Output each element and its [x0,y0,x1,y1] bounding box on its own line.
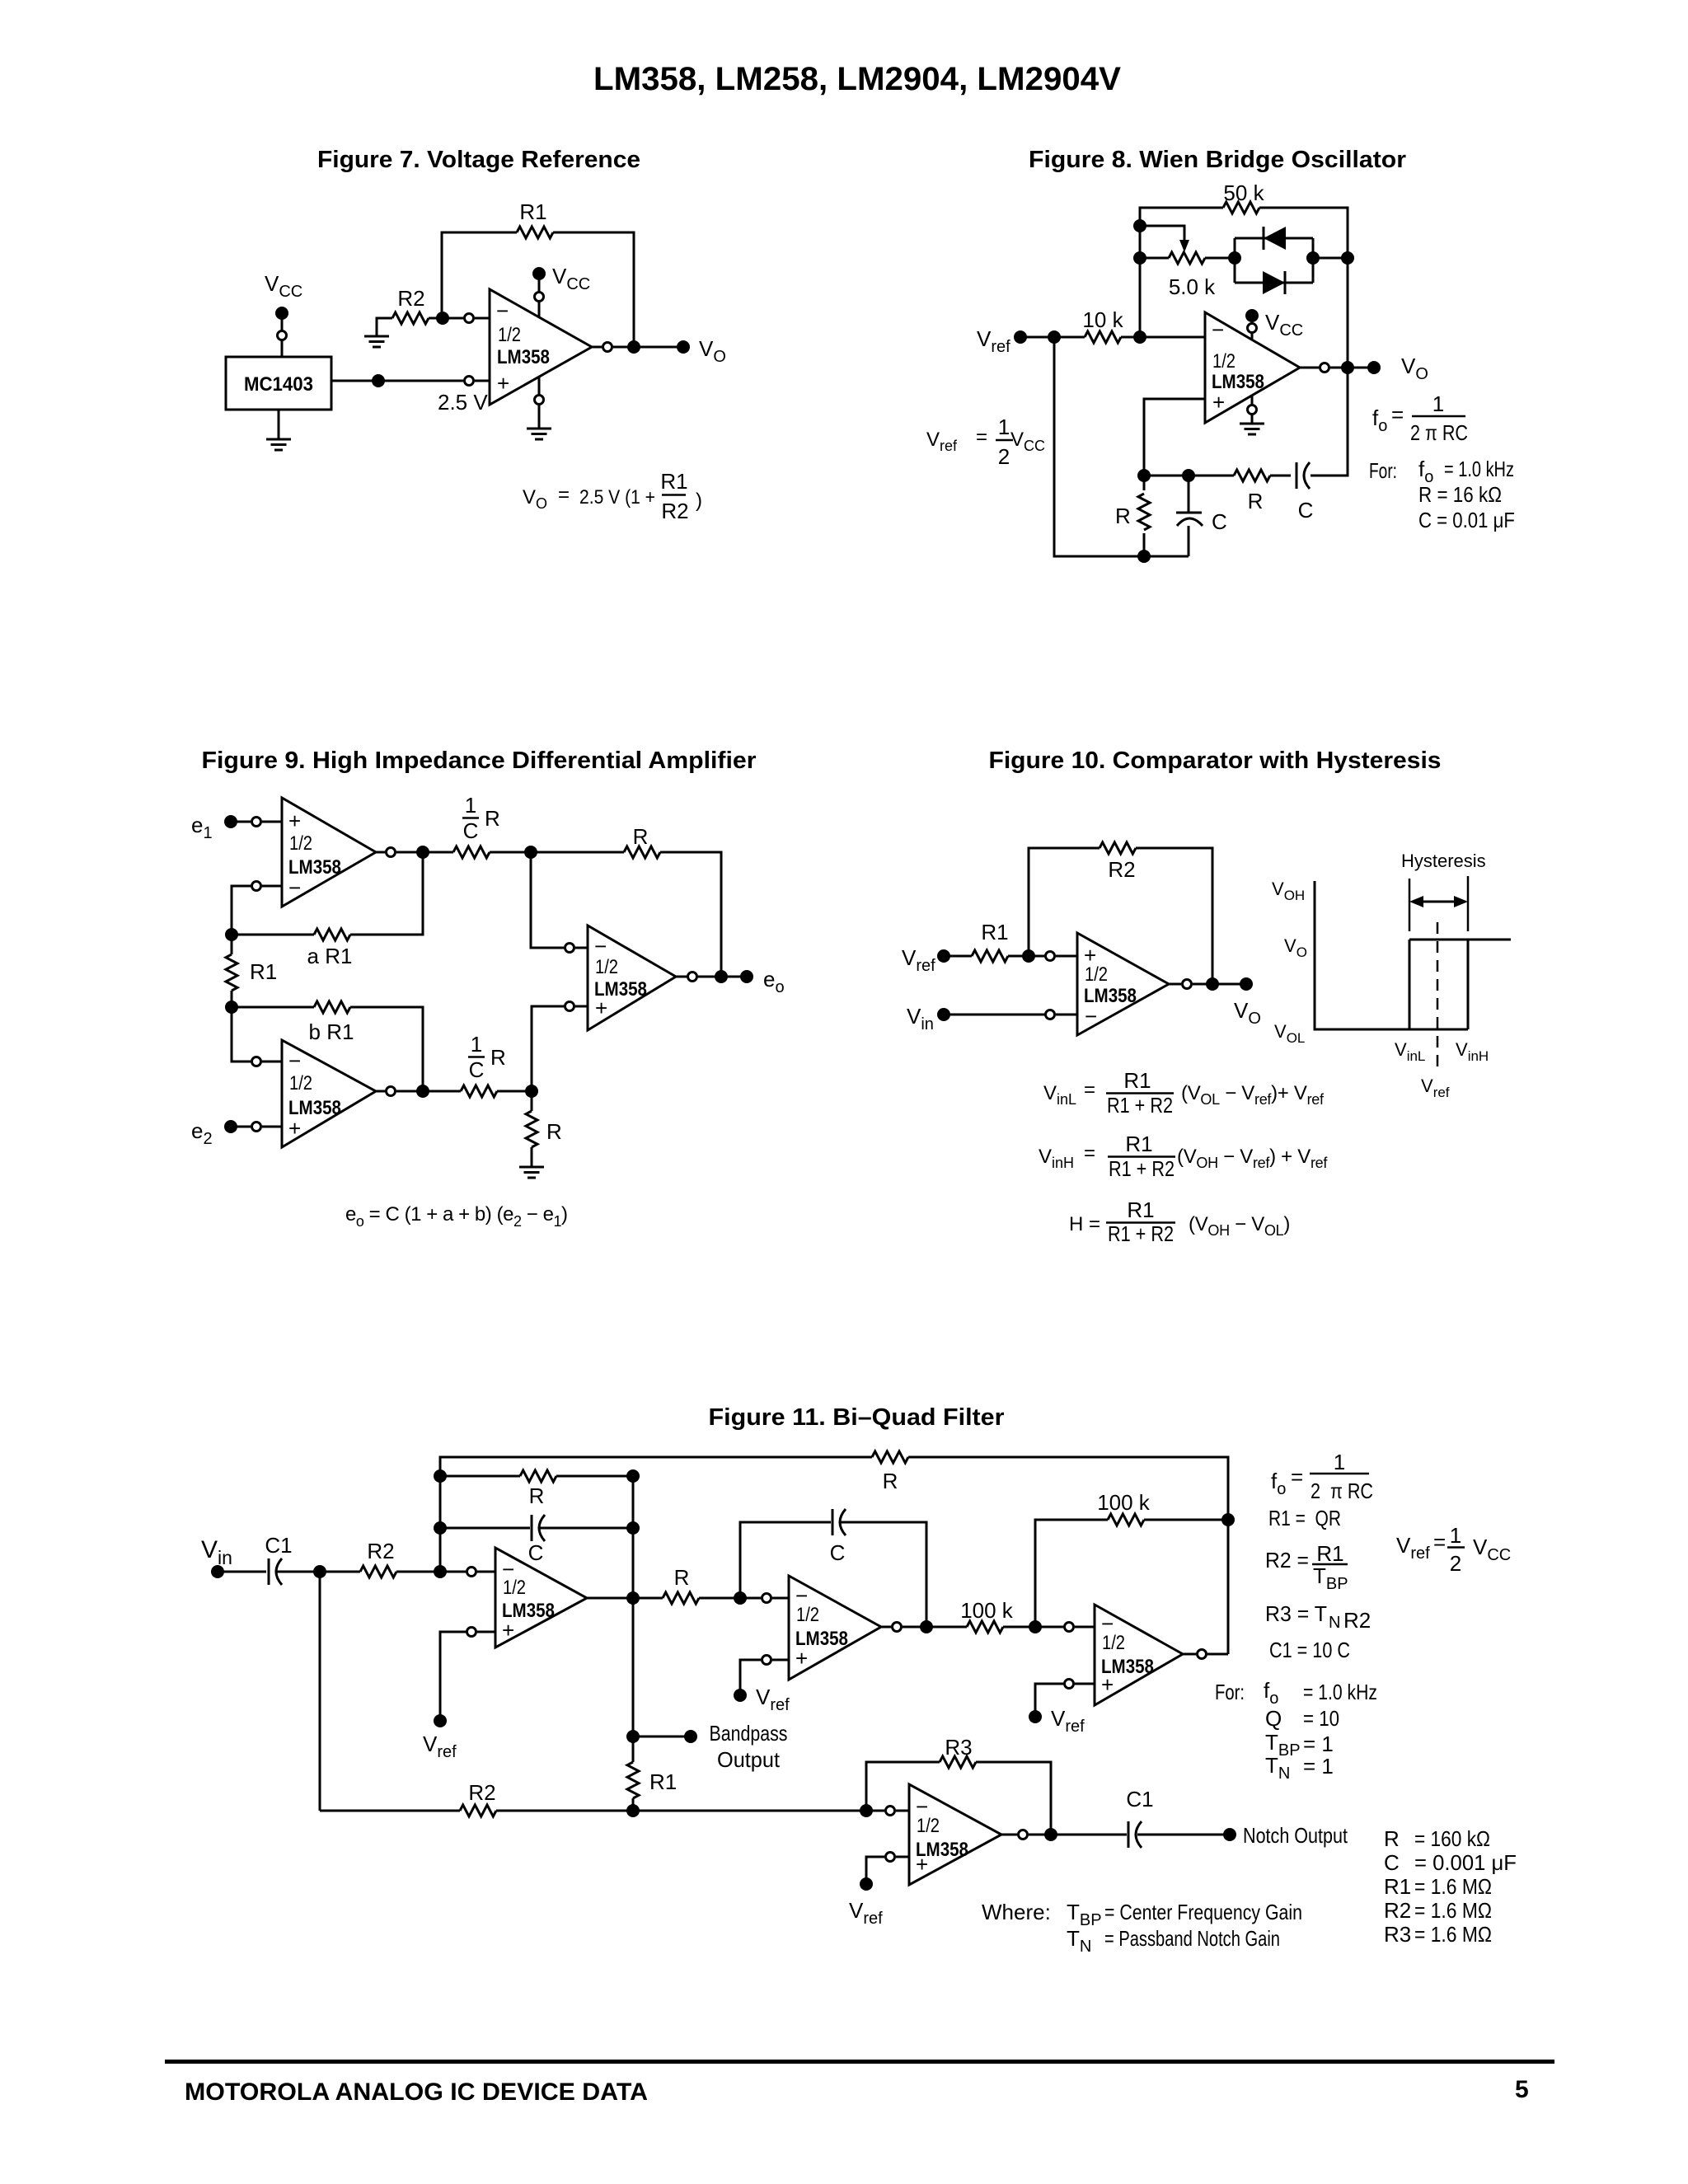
svg-text:(VOH − VOL): (VOH − VOL) [1189,1213,1290,1239]
svg-text:= Center Frequency Gain: = Center Frequency Gain [1104,1900,1302,1924]
svg-text:LM358: LM358 [497,346,550,368]
wire bottom R2 line [320,1810,884,1812]
VCC op-amp pin [1245,309,1303,340]
resistor R1 [972,920,1009,962]
wire series RC branch [1144,368,1348,476]
ground op-amp pin [527,377,551,439]
resistor 100 k (feedback) [1097,1490,1151,1526]
node bottom rail junction [626,1804,640,1817]
component values list [1384,1826,1517,1947]
wire 100k to op-amp 3 [1003,1626,1095,1629]
pin circle inv 3 [1065,1623,1074,1632]
resistor R1 (vertical) [226,935,277,1007]
node Vref 3 [1029,1710,1042,1723]
svg-text:VOH: VOH [1272,879,1305,903]
svg-text:1/2: 1/2 [796,1604,819,1626]
svg-text:R2: R2 [1384,1898,1411,1923]
svg-text:=: = [1084,1142,1095,1165]
svg-text:1/2: 1/2 [917,1815,940,1837]
svg-text:N: N [1329,1614,1340,1632]
resistor R1 (vertical) [627,1762,677,1798]
svg-text:2.5 V: 2.5 V [438,390,488,415]
wire + input 2 [740,1660,789,1695]
svg-text:= 1.6 MΩ: = 1.6 MΩ [1414,1898,1492,1923]
graph step waveform [1409,940,1511,1029]
wire down-left rail [319,1572,321,1811]
svg-text:(VOL − Vref)+ Vref: (VOL − Vref)+ Vref [1181,1082,1325,1108]
node pot right / diode left [1228,251,1241,265]
wire + input down [1144,399,1205,476]
svg-text:R: R [529,1483,545,1508]
resistor R series [1234,470,1270,513]
svg-text:R3 = T: R3 = T [1265,1601,1327,1626]
formula Vref = 1/2 VCC [926,415,1045,469]
svg-text:eo = C (1 + a + b) (e2 − e1): eo = C (1 + a + b) (e2 − e1) [345,1203,568,1230]
svg-text:Q: Q [1265,1706,1282,1731]
svg-text:C: C [1212,509,1227,534]
node inverting junction [1133,330,1146,344]
svg-text:=: = [1291,1465,1303,1489]
svg-text:= 1.6 MΩ: = 1.6 MΩ [1414,1874,1492,1899]
resistor a R1 [232,852,423,968]
resistor 100 k (series) [960,1598,1014,1633]
svg-text:VO: VO [1401,354,1428,383]
svg-text:Figure 9. High Impedance Diffe: Figure 9. High Impedance Differential Am… [202,748,757,774]
svg-text:VO: VO [699,336,726,366]
graph axes [1315,881,1468,1029]
wire R to op-amp 2 [699,1597,789,1600]
svg-text:R1 = QR: R1 = QR [1268,1506,1341,1530]
svg-text:MC1403: MC1403 [244,373,313,396]
svg-text:5.0 k: 5.0 k [1169,274,1216,299]
svg-text:2: 2 [1450,1551,1461,1576]
svg-text:Figure 7. Voltage Reference: Figure 7. Voltage Reference [317,147,640,173]
formula Vref = 1/2 VCC (fig11) [1396,1523,1511,1576]
svg-text:e2: e2 [191,1118,213,1148]
pin circle + input [1046,952,1055,961]
node out A junction [416,846,429,859]
svg-text:a R1: a R1 [307,944,353,968]
wire inverting B [232,1007,282,1062]
svg-text:VCC: VCC [265,271,302,301]
svg-text:= 160 kΩ: = 160 kΩ [1414,1826,1490,1851]
Vref dashed line [1437,922,1439,1072]
svg-text:Notch Output: Notch Output [1243,1823,1348,1848]
svg-text:LM358, LM258, LM2904, LM2904V: LM358, LM258, LM2904, LM2904V [593,61,1121,97]
svg-text:100 k: 100 k [960,1598,1014,1623]
svg-text:+: + [795,1646,808,1671]
svg-text:R1: R1 [1125,1132,1152,1156]
svg-text:1/2: 1/2 [498,324,521,346]
svg-text:10 k: 10 k [1082,307,1123,332]
wire feedback C branch [440,1527,633,1530]
op-amp U3 1/2 LM358 [1077,933,1169,1035]
svg-text:VCC: VCC [1010,429,1045,454]
wire inv to op-amp 4 [896,1810,909,1812]
svg-text:fo: fo [1372,405,1387,435]
where definitions [982,1900,1302,1956]
node right rail C tap [626,1521,640,1535]
svg-text:C: C [528,1540,544,1565]
svg-text:VO: VO [523,486,547,512]
node output rail [1341,361,1354,374]
svg-text:+: + [502,1618,514,1643]
wire C1 to R2 [277,1571,360,1573]
svg-text:R: R [674,1565,690,1590]
node output 1 rail [626,1591,640,1605]
wire + input 4 [866,1857,909,1884]
wire output C [676,976,747,978]
svg-text:2: 2 [998,444,1010,469]
wire inverting A [232,886,282,935]
svg-text:−: − [1085,1004,1097,1029]
hysteresis tick right [1467,876,1470,931]
svg-text:+: + [288,808,301,833]
svg-text:Vref: Vref [423,1732,457,1761]
svg-text:100 k: 100 k [1097,1490,1151,1515]
footer rule [165,2060,1554,2064]
svg-text:TN: TN [1067,1926,1091,1956]
svg-text:1/2: 1/2 [289,1072,312,1094]
wire 50k top loop [1140,208,1348,368]
op-amp F3 1/2 LM358 [1095,1605,1183,1705]
svg-text:1/2: 1/2 [1085,963,1108,986]
node VO terminal [1367,361,1381,374]
resistor R (shunt) [526,1091,562,1167]
svg-text:=: = [1391,402,1404,427]
Bandpass Output label [710,1721,788,1772]
capacitor C (op2 feedback) [830,1509,846,1565]
node feedback junction [1022,949,1035,963]
svg-text:VOL: VOL [1274,1021,1305,1046]
wire Vin to C1 [218,1571,266,1573]
svg-text:+: + [595,996,607,1020]
svg-text:Vref: Vref [849,1898,883,1928]
svg-text:R: R [1115,504,1131,528]
svg-text:1: 1 [465,793,476,818]
svg-text:= 1: = 1 [1303,1732,1334,1756]
resistor 50 k [1223,180,1265,213]
pin circle out 2 [893,1623,902,1632]
node on + wire [372,374,385,387]
svg-text:1: 1 [1432,391,1444,416]
svg-text:R1 + R2: R1 + R2 [1108,1221,1174,1246]
svg-text:2.5 V (1 +: 2.5 V (1 + [579,486,655,509]
resistor R2 (top) [360,1539,396,1577]
svg-text:2 π RC: 2 π RC [1311,1479,1373,1503]
node out B junction [416,1085,429,1098]
svg-text:R: R [546,1119,562,1144]
node inverting junction 4 [860,1804,873,1817]
svg-text:R2: R2 [661,499,688,523]
wire e2 to op-amp B [231,1126,282,1128]
wire to notch terminal [1137,1834,1230,1836]
svg-text:R1: R1 [649,1769,677,1794]
wire wiper arm [1140,226,1184,241]
op-amp U2 1/2 LM358 [1205,312,1300,423]
op-amp B 1/2 LM358 [282,1040,376,1147]
svg-text:R: R [883,1469,898,1493]
svg-text:−: − [1212,317,1224,342]
wire Vref to R1 [944,955,1077,958]
svg-text:TBP: TBP [1313,1563,1348,1593]
svg-text:R1: R1 [981,920,1008,944]
svg-text:1: 1 [471,1032,482,1057]
capacitor C1 (input) [265,1533,292,1585]
node feedback right rail [1221,1513,1235,1526]
wire inverting input [429,317,490,320]
svg-text:Figure 11. Bi–Quad Filter: Figure 11. Bi–Quad Filter [709,1404,1005,1431]
node Vref 1 [434,1714,447,1727]
wire R to eo rail [660,852,721,977]
resistor R (top right) [624,824,660,858]
svg-text:R2: R2 [1343,1608,1371,1633]
svg-text:VinH: VinH [1039,1146,1074,1171]
pin circle out B [387,1087,396,1096]
node shunt junction [1182,469,1195,482]
VCC terminal (MC1403) [265,271,302,357]
svg-text:R2 =: R2 = [1265,1548,1309,1572]
wire right rail [632,1476,635,1811]
svg-text:VinH: VinH [1456,1039,1489,1064]
node right rail R tap [626,1469,640,1483]
svg-text:R1: R1 [1384,1874,1411,1899]
wire + input 1 [440,1632,495,1721]
pin circle - input [1046,1010,1055,1019]
node e1 terminal [224,815,237,828]
svg-text:C = 0.01 μF: C = 0.01 μF [1418,508,1515,532]
formula H [1069,1197,1290,1246]
node Vref terminal [937,949,950,963]
pin circle output [1183,980,1192,989]
node left rail R tap [434,1469,447,1483]
svg-text:1/2: 1/2 [595,956,618,978]
hysteresis arrow [1409,896,1468,907]
pin circle inv A [252,882,261,891]
svg-text:−: − [496,298,509,323]
resistor R (inner feedback) [520,1470,556,1508]
node inverting junction 2 [734,1591,747,1605]
svg-text:R1: R1 [519,199,546,224]
wire output 3 [1183,1653,1228,1656]
diode D2 (cathode right) [1263,271,1285,294]
svg-text:VinL: VinL [1043,1082,1076,1108]
svg-text:=: = [1433,1530,1446,1554]
svg-text:Where:: Where: [982,1900,1051,1924]
wire to node A [490,851,624,854]
node junction bR1 left [225,1001,238,1014]
node Vref 2 [734,1689,747,1702]
formula fo = 1/2piRC [1372,391,1468,445]
node VO terminal [1240,977,1253,991]
svg-text:R1: R1 [250,959,277,984]
svg-text:C: C [830,1540,846,1565]
svg-text:For:: For: [1369,458,1397,483]
svg-text:Vin: Vin [907,1004,934,1033]
node out 2 feedback [920,1620,933,1633]
svg-text:Figure 10. Comparator with Hys: Figure 10. Comparator with Hysteresis [989,748,1442,774]
svg-text:5: 5 [1515,2076,1529,2103]
svg-text:VCC: VCC [552,264,590,293]
formula VinH [1039,1132,1328,1181]
resistor R (series mid) [663,1565,699,1604]
svg-text:H =: H = [1069,1213,1100,1235]
resistor R3 [940,1735,976,1768]
MC1403 block [226,357,331,410]
wire inner feedback R [440,1475,633,1478]
svg-text:Figure 8. Wien Bridge Oscillat: Figure 8. Wien Bridge Oscillator [1029,147,1406,173]
svg-text:C: C [1384,1850,1400,1875]
wire diode bridge frame [1235,238,1348,283]
node pot left [1133,251,1146,265]
svg-text:R1 + R2: R1 + R2 [1109,1156,1175,1181]
wire output 2 [881,1626,967,1629]
wire R2 to op-amp 1 [396,1571,495,1573]
pin circle e1 [252,818,261,827]
node out C junction [715,970,728,983]
svg-text:C: C [463,818,479,843]
wire output 1 [587,1597,663,1600]
svg-text:1/2: 1/2 [503,1577,526,1599]
svg-text:R1: R1 [1316,1541,1343,1566]
svg-text:R1 + R2: R1 + R2 [1107,1093,1173,1118]
node junction aR1 left [225,928,238,941]
svg-text:= 0.001 μF: = 0.001 μF [1414,1850,1517,1875]
pin circle inv C [565,944,574,953]
resistor R2 [1100,842,1136,882]
pin circle e2 [252,1122,261,1132]
svg-text:R: R [490,1045,506,1070]
formula fo = 1/2piRC (fig11) [1271,1450,1373,1503]
op-amp F4 1/2 LM358 [909,1784,1001,1885]
wire to node B [497,1090,532,1093]
resistor R2 [392,286,429,324]
wire bandpass output [633,1736,691,1738]
svg-text:+: + [497,371,509,396]
ground (shunt R) [519,1167,544,1178]
VCC op-amp pin [532,264,590,317]
wire Vref to 10k [1020,336,1205,339]
resistor R2 (bottom) [460,1780,496,1816]
op-amp U1 1/2 LM358 [490,289,592,405]
svg-text:VCC: VCC [1473,1535,1511,1564]
svg-text:= 1.0 kHz: = 1.0 kHz [1303,1680,1377,1704]
svg-text:R = 16 kΩ: R = 16 kΩ [1418,482,1502,507]
svg-text:fo: fo [1264,1678,1278,1708]
svg-text:Vref: Vref [1051,1706,1085,1736]
formula R2 = R1/TBP [1265,1541,1348,1593]
pin circle + 1 [467,1628,476,1637]
hysteresis tick left [1409,879,1411,931]
resistor 10 k [1082,307,1123,343]
svg-text:+: + [916,1852,928,1877]
pin circle non-inverting [465,377,474,386]
svg-text:VCC: VCC [1265,310,1303,340]
node bottom [1137,550,1151,563]
wire output A [376,851,453,854]
svg-text:50 k: 50 k [1223,180,1264,205]
svg-text:R: R [485,806,500,831]
wire node A to inverting C [531,852,588,948]
svg-text:C1: C1 [1126,1787,1153,1811]
svg-text:Bandpass: Bandpass [710,1721,788,1746]
pin circle inv 2 [762,1594,771,1603]
svg-text:MOTOROLA ANALOG IC DEVICE DATA: MOTOROLA ANALOG IC DEVICE DATA [185,2079,648,2106]
pin circle output [1320,363,1329,373]
wire output [592,346,683,349]
wire e1 to op-amp A [231,821,282,823]
node input junction [313,1565,326,1578]
svg-text:For:: For: [1215,1680,1245,1704]
svg-text:VO: VO [1284,935,1307,960]
svg-text:1/2: 1/2 [1212,350,1236,373]
wire feedback C2 loop [740,1522,926,1627]
op-amp F2 1/2 LM358 [789,1576,881,1680]
for values (fig11) [1215,1678,1377,1783]
wire 2.5V to + input [331,380,490,382]
svg-text:= 1.6 MΩ: = 1.6 MΩ [1414,1922,1492,1947]
node bandpass terminal [684,1730,697,1743]
svg-text:−: − [288,1048,301,1073]
node notch terminal [1223,1828,1236,1841]
capacitor C (op1 feedback) [528,1515,545,1565]
node Vin terminal [937,1008,950,1021]
resistor R1 [517,199,553,238]
svg-text:Vref: Vref [977,326,1010,356]
svg-text:= 1.0 kHz: = 1.0 kHz [1444,457,1514,481]
svg-text:C1: C1 [265,1533,292,1558]
svg-text:Output: Output [717,1747,781,1772]
node bandpass tap [626,1730,640,1743]
pin circle + 2 [762,1656,771,1665]
svg-text:R1: R1 [1123,1068,1151,1093]
svg-text:1/2: 1/2 [289,832,312,855]
svg-text:R3: R3 [945,1735,972,1760]
svg-text:2 π RC: 2 π RC [1410,420,1468,445]
svg-text:−: − [288,875,301,900]
node Vref terminal [1014,330,1027,344]
capacitor C1 (output) [1126,1787,1153,1848]
svg-text:1/2: 1/2 [1102,1632,1125,1654]
resistor 1/C R (bottom) [461,1032,506,1097]
svg-text:R2: R2 [367,1539,394,1563]
wire output [1300,367,1374,369]
pin circle inv 1 [467,1568,476,1577]
node Vref 4 [860,1877,873,1891]
svg-text:+: + [288,1116,301,1141]
svg-text:R2: R2 [1108,857,1135,882]
pin circle inv B [252,1057,261,1066]
wire output 4 [1001,1834,1127,1836]
resistor b R1 [232,1001,423,1091]
node R3 feedback junction [1044,1828,1057,1841]
svg-text:Vref: Vref [1396,1533,1430,1563]
resistor 1/C R (top) [453,793,500,858]
op-amp F1 1/2 LM358 [495,1548,587,1647]
svg-text:e1: e1 [191,813,213,842]
svg-text:1: 1 [998,415,1010,439]
diode D1 (cathode left) [1264,227,1286,250]
svg-text:R: R [1384,1826,1400,1851]
pin circle + 3 [1065,1680,1074,1689]
node + rail bottom [1137,469,1151,482]
svg-text:C: C [469,1057,485,1082]
wire feedback top [442,232,634,347]
node diode right [1306,251,1320,265]
svg-text:=: = [1084,1079,1095,1101]
svg-text:Vref: Vref [1421,1076,1450,1100]
formula VinL [1043,1068,1325,1118]
